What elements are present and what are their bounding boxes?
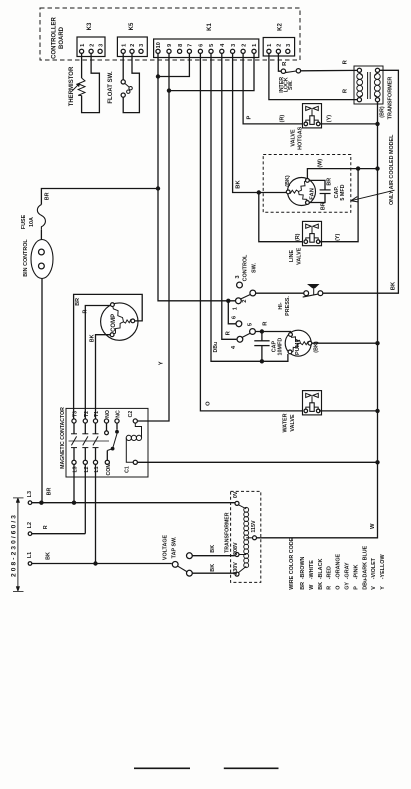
svg-text:HOTGAS: HOTGAS	[297, 126, 303, 149]
svg-text:L1: L1	[27, 552, 33, 558]
svg-text:2: 2	[130, 44, 136, 47]
svg-text:(Y): (Y)	[335, 234, 341, 241]
svg-text:BR: BR	[327, 178, 333, 186]
svg-text:PRESS.: PRESS.	[285, 296, 291, 316]
svg-text:K3: K3	[87, 22, 93, 30]
svg-text:2: 2	[241, 44, 247, 47]
svg-text:FAN: FAN	[310, 188, 316, 200]
svg-text:3: 3	[139, 44, 145, 47]
svg-text:BK: BK	[236, 180, 242, 189]
svg-text:W: W	[370, 523, 376, 529]
svg-text:GY: GY	[345, 582, 351, 590]
svg-text:ONLY AIR COOLED MODEL: ONLY AIR COOLED MODEL	[389, 134, 395, 205]
svg-text:-DARK BLUE: -DARK BLUE	[362, 545, 368, 579]
svg-text:K1: K1	[207, 23, 213, 31]
svg-text:-RED: -RED	[327, 566, 333, 579]
svg-text:BK: BK	[210, 545, 216, 553]
svg-text:BR: BR	[75, 298, 81, 306]
svg-text:BK: BK	[90, 334, 96, 342]
svg-text:(R): (R)	[279, 115, 285, 123]
svg-text:3: 3	[231, 44, 237, 47]
svg-text:C2: C2	[128, 411, 134, 418]
svg-text:BR: BR	[320, 202, 326, 210]
svg-text:NC: NC	[116, 410, 122, 418]
svg-text:-VIOLET: -VIOLET	[371, 557, 377, 579]
svg-text:10A: 10A	[29, 217, 35, 227]
svg-text:V: V	[371, 586, 377, 590]
svg-text:O: O	[336, 586, 342, 590]
svg-text:FLOAT SW.: FLOAT SW.	[108, 71, 114, 104]
svg-text:10MFD: 10MFD	[278, 338, 284, 356]
svg-text:THERMISTOR: THERMISTOR	[69, 66, 75, 106]
svg-text:COM: COM	[106, 463, 112, 475]
svg-text:P: P	[353, 586, 359, 590]
svg-text:VALVE: VALVE	[290, 414, 296, 432]
svg-text:1: 1	[252, 44, 258, 47]
svg-text:TRANSFORMER: TRANSFORMER	[388, 77, 394, 120]
svg-text:COMP: COMP	[111, 314, 117, 332]
svg-text:-ORANGE: -ORANGE	[336, 553, 342, 579]
svg-text:(BK): (BK)	[285, 175, 291, 187]
svg-text:BK: BK	[318, 582, 324, 590]
svg-text:115V: 115V	[251, 520, 257, 533]
svg-text:T2: T2	[84, 411, 90, 417]
svg-text:WIRE COLOR CODE: WIRE COLOR CODE	[289, 537, 295, 590]
svg-text:BR: BR	[46, 488, 52, 496]
svg-text:L2: L2	[27, 522, 33, 528]
svg-text:230V: 230V	[233, 562, 239, 575]
svg-text:BK: BK	[391, 281, 397, 290]
svg-text:-YELLOW: -YELLOW	[380, 554, 386, 580]
svg-text:2: 2	[242, 300, 248, 303]
svg-text:K5: K5	[129, 22, 135, 30]
svg-text:Y: Y	[380, 586, 386, 590]
svg-text:TRANSFORMER: TRANSFORMER	[224, 512, 230, 553]
svg-text:208V: 208V	[233, 542, 239, 555]
svg-text:PUMP: PUMP	[295, 339, 301, 355]
svg-text:T3: T3	[73, 411, 79, 417]
svg-text:T1: T1	[94, 411, 100, 417]
svg-text:HI-: HI-	[278, 302, 284, 309]
svg-text:-BLACK: -BLACK	[318, 559, 324, 580]
svg-text:BR: BR	[300, 582, 306, 590]
svg-text:FUSE: FUSE	[21, 214, 27, 229]
svg-text:CAP: CAP	[271, 341, 277, 353]
svg-text:TAP SW.: TAP SW.	[171, 536, 177, 558]
svg-text:C1: C1	[125, 466, 131, 473]
svg-text:K2: K2	[278, 23, 284, 31]
svg-text:(W): (W)	[318, 159, 324, 168]
svg-text:BOARD: BOARD	[59, 26, 65, 49]
svg-text:(R): (R)	[295, 233, 301, 241]
svg-text:CONTROL: CONTROL	[242, 254, 248, 281]
svg-text:1: 1	[267, 44, 273, 47]
svg-text:L3: L3	[27, 491, 33, 497]
svg-text:2: 2	[89, 44, 95, 47]
svg-text:R: R	[327, 586, 333, 590]
svg-text:DBu: DBu	[213, 342, 219, 353]
svg-text:-PINK: -PINK	[353, 565, 359, 580]
svg-text:-WHITE: -WHITE	[309, 560, 315, 580]
svg-text:2: 2	[277, 44, 283, 47]
svg-text:7: 7	[188, 44, 194, 47]
svg-text:BR: BR	[44, 192, 50, 200]
svg-text:SW.: SW.	[252, 263, 258, 273]
svg-text:R: R	[83, 310, 89, 314]
svg-text:-BROWN: -BROWN	[300, 556, 306, 579]
svg-text:(BR): (BR)	[380, 106, 386, 118]
svg-text:Y: Y	[159, 361, 165, 365]
svg-text:5: 5	[209, 44, 215, 47]
svg-text:(Y): (Y)	[326, 115, 332, 122]
svg-text:1: 1	[121, 44, 127, 47]
svg-text:208-230/60/3: 208-230/60/3	[11, 513, 18, 577]
svg-text:BK: BK	[45, 552, 51, 560]
svg-text:VALVE: VALVE	[296, 247, 302, 265]
svg-text:6: 6	[199, 44, 205, 47]
svg-text:BIN CONTROL: BIN CONTROL	[23, 239, 29, 277]
svg-text:NO: NO	[105, 410, 111, 418]
svg-text:9: 9	[167, 44, 173, 47]
svg-text:LINE: LINE	[289, 249, 295, 262]
svg-text:3: 3	[286, 44, 292, 47]
svg-text:O: O	[205, 401, 211, 406]
svg-text:5 MFD: 5 MFD	[340, 184, 346, 200]
svg-text:VALVE: VALVE	[290, 129, 296, 147]
svg-text:0V: 0V	[233, 491, 239, 498]
svg-text:8: 8	[178, 44, 184, 47]
svg-text:CONTROLLER: CONTROLLER	[52, 17, 58, 59]
svg-text:-GRAY: -GRAY	[345, 562, 351, 579]
svg-text:1: 1	[80, 44, 86, 47]
svg-text:VOLTAGE: VOLTAGE	[162, 534, 168, 560]
svg-text:DBu: DBu	[362, 579, 368, 590]
svg-text:BK: BK	[210, 564, 216, 572]
svg-text:R: R	[43, 525, 49, 529]
svg-text:SW.: SW.	[288, 80, 294, 90]
svg-text:P: P	[247, 116, 253, 120]
svg-text:10: 10	[156, 42, 162, 48]
svg-text:3: 3	[98, 44, 104, 47]
svg-text:MAGNETIC CONTACTOR: MAGNETIC CONTACTOR	[60, 407, 66, 469]
svg-text:WATER: WATER	[282, 413, 288, 432]
